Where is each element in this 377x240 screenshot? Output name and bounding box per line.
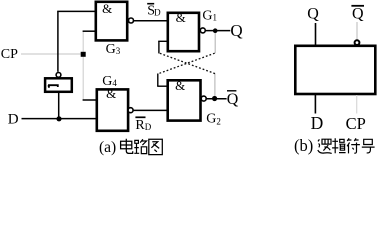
caption (b) hanzi luo [318, 139, 332, 153]
inverter box [45, 78, 72, 92]
svg-text:CP: CP [1, 47, 18, 62]
caption (b) hanzi hao [362, 139, 375, 153]
caption (a) hanzi tu [149, 139, 163, 154]
svg-text:(a): (a) [99, 139, 116, 156]
wire Q-bar feedback into G1 input 2 [158, 40, 167, 42]
wire Q-bar feedback diagonal to G1 [159, 53, 215, 74]
wire SD to G1 input 1 [134, 20, 167, 22]
wire Q feedback vertical (gray) [214, 33, 216, 53]
wire Q feedback diagonal to G2 [158, 53, 215, 74]
wire Q-bar feedback vertical (gray) [214, 74, 216, 96]
svg-text:Q: Q [352, 6, 364, 23]
wire D horizontal [22, 118, 97, 120]
wire CP to G4 input 1 [83, 99, 97, 101]
svg-text:Q: Q [227, 91, 239, 108]
pin CP (symbol, gray) [356, 95, 358, 114]
wire Q feedback into G2 input 1 [157, 85, 167, 87]
junction Q-bar node [212, 96, 217, 101]
wire CP to G3 input 2 [83, 30, 96, 32]
net RD-bar label [135, 117, 151, 133]
svg-text:D: D [311, 113, 324, 133]
wire to G3 input 1 [57, 10, 95, 12]
G1 output bubble [200, 28, 205, 33]
logic symbol box [295, 46, 375, 94]
junction D node [56, 116, 61, 121]
svg-text:Q: Q [307, 6, 319, 23]
pin Q (symbol) [315, 23, 317, 46]
caption (b) hanzi fu [347, 138, 360, 153]
caption (a) hanzi lu [134, 139, 146, 153]
G2 output bubble [201, 96, 206, 101]
junction Q node [213, 28, 218, 33]
wire CP vertical riser [82, 31, 84, 100]
pin Q-bar (symbol, gray) [356, 22, 358, 40]
pin Q-bar bubble [355, 40, 360, 45]
svg-text:&: & [176, 10, 186, 25]
junction CP node [81, 52, 86, 57]
NAND gate G4 box [97, 89, 128, 130]
wire inverter output up [57, 11, 59, 71]
NAND gate G1 box [168, 13, 199, 51]
inverter output bubble [56, 73, 61, 78]
wire Q output [206, 30, 231, 32]
wire CP horizontal [21, 53, 83, 55]
net SD-bar label [147, 4, 161, 19]
wire RD to G2 input 2 [134, 109, 167, 111]
caption (a) hanzi dian [121, 139, 133, 154]
wire Q feedback down-leg [157, 74, 159, 87]
wire Q-bar output [207, 98, 227, 100]
svg-text:Q: Q [230, 21, 242, 40]
G4 output bubble [128, 108, 133, 113]
inverter value 1 (rotated glyph) [48, 85, 58, 88]
svg-text:(b): (b) [294, 136, 313, 155]
svg-text:&: & [175, 78, 185, 93]
wire Q-bar feedback up-leg [158, 41, 160, 53]
pin Q-bar label (symbol) [351, 6, 364, 23]
node Q-bar label [227, 91, 239, 108]
caption (b) hanzi ji [332, 138, 346, 153]
svg-text:D: D [8, 111, 19, 127]
svg-text:&: & [102, 1, 112, 16]
NAND gate G3 box [96, 2, 127, 41]
G3 output bubble [129, 18, 134, 23]
svg-text:CP: CP [346, 114, 366, 133]
NAND gate G2 box [168, 80, 201, 120]
wire D up to inverter [58, 93, 60, 119]
pin D (symbol) [314, 95, 316, 114]
